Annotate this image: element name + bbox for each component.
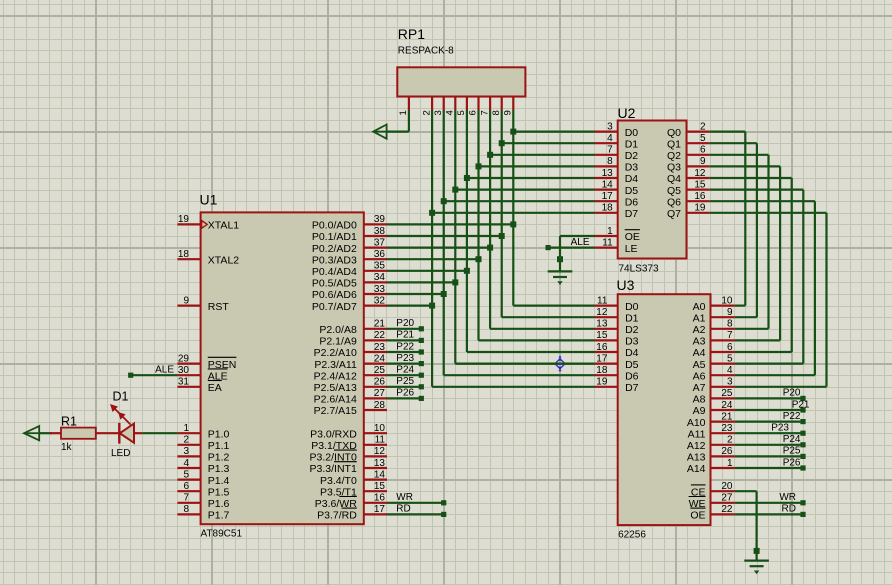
wire AD5 to 74LS373 D5	[455, 189, 594, 191]
wire Q3 to 62256 A3	[710, 166, 780, 340]
svg-text:P3.0/RXD: P3.0/RXD	[310, 428, 357, 440]
RP1 pin 6 stub	[477, 97, 479, 111]
wire P0.0/AD0 from U1 to bus column	[387, 223, 514, 225]
label U2	[618, 105, 636, 121]
svg-text:P2.1/A9: P2.1/A9	[319, 336, 357, 348]
svg-text:1k: 1k	[61, 442, 73, 453]
U2 pin name LE	[625, 243, 638, 255]
U1 pin number 2	[183, 435, 189, 446]
U1 pin 5 (P1.4) stub	[177, 479, 200, 481]
junction AD5 at P0.5 row	[452, 279, 458, 285]
wire D1 to U1 P1.0	[142, 432, 177, 434]
U3 pin 12 (D1) stub	[595, 316, 618, 318]
U2 pin name Q7	[667, 208, 681, 220]
U1 pin 28 (P2.7/A15) stub	[364, 409, 387, 411]
dangling end square (net P20 at U1)	[419, 326, 424, 331]
svg-text:D5: D5	[625, 185, 639, 197]
wire net P23 at U1 P2.3	[387, 363, 422, 365]
RP1 pin number 9 (rotated)	[503, 110, 514, 115]
svg-text:13: 13	[374, 458, 386, 469]
U3 pin 9 (A1) stub	[711, 316, 735, 318]
net label P26 (at U1)	[396, 388, 414, 399]
U2 pin 17 (D6) stub	[595, 200, 618, 202]
svg-text:D5: D5	[625, 359, 639, 371]
svg-text:P0.5/AD5: P0.5/AD5	[312, 278, 357, 290]
svg-text:Q2: Q2	[667, 150, 681, 162]
U3 pin number 25	[721, 388, 733, 399]
U2 pin number 14	[602, 179, 614, 190]
svg-text:8: 8	[183, 504, 189, 515]
U2 pin number 2	[700, 121, 706, 132]
svg-text:A4: A4	[693, 347, 706, 359]
wire P0.4/AD4 from U1 to bus column	[387, 270, 467, 272]
junction AD3 at P0.3 row	[476, 256, 482, 262]
svg-text:RP1: RP1	[398, 26, 425, 42]
wire bus column AD3 (RP1 pin 6 down to 62256 D3 row)	[477, 110, 479, 340]
U1 pin number 39	[374, 214, 386, 225]
svg-text:13: 13	[596, 319, 608, 330]
wire net P26 at U3 A14	[735, 467, 803, 469]
svg-text:A14: A14	[687, 463, 706, 475]
svg-text:3: 3	[607, 121, 613, 132]
svg-text:Q7: Q7	[667, 208, 681, 220]
dangling end square (net P25 at U3)	[800, 454, 805, 459]
svg-text:3: 3	[433, 110, 444, 115]
U3 pin number 19	[596, 377, 608, 388]
svg-text:Q3: Q3	[667, 162, 681, 174]
svg-text:20: 20	[721, 481, 733, 492]
svg-text:D1: D1	[625, 138, 639, 150]
U1 pin name P1.4	[208, 475, 230, 487]
svg-text:P26: P26	[396, 388, 414, 399]
wire net P20 at U3 A8	[735, 397, 803, 399]
wire net P22 at U1 P2.2	[387, 351, 422, 353]
wire bus column AD6 (RP1 pin 3 down to 62256 D6 row)	[443, 110, 445, 375]
U3 pin number 2	[727, 435, 733, 446]
svg-text:P2.5/A13: P2.5/A13	[314, 382, 357, 394]
U3 pin name OE (active low)	[690, 508, 705, 521]
svg-text:6: 6	[468, 110, 479, 115]
U2 pin name D0	[625, 127, 639, 139]
dangling end square (net P24 at U1)	[419, 373, 424, 378]
net label P22 (at U1)	[396, 341, 414, 352]
wire U3 CE to ground	[735, 491, 757, 559]
U2 pin 13 (D4) stub	[595, 177, 618, 179]
U3 pin 13 (D2) stub	[595, 328, 618, 330]
U1 pin 8 (P1.7) stub	[177, 513, 200, 515]
svg-text:2: 2	[727, 435, 733, 446]
svg-text:17: 17	[374, 504, 386, 515]
svg-text:1: 1	[727, 458, 733, 469]
dangling end square (net P26 at U1)	[419, 396, 424, 401]
net label P24 (at U3)	[783, 434, 801, 445]
U1 pin number 8	[183, 504, 189, 515]
wire P0.6/AD6 from U1 to bus column	[387, 293, 444, 295]
svg-text:U3: U3	[617, 277, 635, 293]
U1 pin 1 (P1.0) stub	[177, 432, 200, 434]
svg-text:OE: OE	[690, 510, 705, 522]
svg-text:P3.7/RD: P3.7/RD	[317, 510, 357, 522]
U1 pin 30 (ALE) stub	[177, 374, 200, 376]
svg-text:4: 4	[727, 365, 733, 376]
U1 pin 16 (P3.6/WR) stub	[364, 502, 387, 504]
wire U2 OE to ground	[560, 236, 595, 271]
value AT89C51	[201, 529, 243, 540]
U3 pin 4 (A6) stub	[711, 374, 735, 376]
U1 pin 2 (P1.1) stub	[177, 444, 200, 446]
svg-text:P25: P25	[396, 376, 414, 387]
U1 pin name XTAL2	[208, 254, 239, 266]
U3 pin number 16	[596, 342, 608, 353]
net label P21 (at U1)	[396, 330, 414, 341]
U2 pin name D1	[625, 138, 639, 150]
svg-text:22: 22	[374, 330, 386, 341]
U3 pin 5 (A5) stub	[711, 363, 735, 365]
svg-text:D6: D6	[625, 196, 639, 208]
svg-text:24: 24	[374, 353, 386, 364]
U2 pin 4 (D1) stub	[595, 142, 618, 144]
svg-text:11: 11	[597, 295, 608, 306]
U1 pin name P1.7	[208, 510, 230, 522]
svg-text:26: 26	[721, 446, 733, 457]
svg-text:Q5: Q5	[667, 185, 681, 197]
wire AD5 over origin marker (overlay)	[455, 363, 594, 365]
svg-text:D7: D7	[625, 382, 639, 394]
svg-text:RST: RST	[208, 301, 230, 313]
U1 pin 21 (P2.0/A8) stub	[364, 328, 387, 330]
svg-text:1: 1	[398, 110, 409, 115]
U1 pin 6 (P1.5) stub	[177, 490, 200, 492]
svg-text:LE: LE	[625, 243, 638, 255]
RP1 pin 1 stub	[408, 97, 410, 111]
U2 pin number 11	[602, 237, 613, 248]
U2 pin 5 (Q1) stub	[687, 142, 710, 144]
wire net WR at U3	[735, 502, 803, 504]
U1 pin name EA	[208, 381, 222, 395]
svg-text:P1.7: P1.7	[208, 510, 230, 522]
origin marker (blue)	[553, 356, 567, 372]
RP1 pin number 8 (rotated)	[491, 110, 502, 115]
svg-text:7: 7	[183, 493, 189, 504]
svg-text:P0.0/AD0: P0.0/AD0	[312, 220, 357, 232]
RP1 pin 8 stub	[501, 97, 503, 111]
svg-text:9: 9	[700, 156, 706, 167]
net label P26 (at U3)	[783, 457, 801, 468]
U2 pin number 3	[607, 121, 613, 132]
svg-text:18: 18	[596, 365, 608, 376]
svg-text:D3: D3	[625, 162, 639, 174]
U3 pin name D0	[625, 301, 639, 313]
svg-text:P1.3: P1.3	[208, 463, 230, 475]
net label P23 (at U1)	[396, 353, 414, 364]
svg-text:5: 5	[456, 110, 467, 115]
U1 pin number 11	[375, 435, 386, 446]
ground symbol (under U3)	[744, 561, 769, 575]
wire net ALE to U2 LE	[548, 247, 594, 249]
svg-text:19: 19	[694, 203, 706, 214]
U3 pin number 22	[721, 504, 733, 515]
svg-text:XTAL1: XTAL1	[208, 220, 239, 232]
U1 pin name PSEN	[208, 357, 237, 371]
U1 pin name P3.1/TXD	[311, 440, 357, 452]
junction AD4 at 74LS373 D4 row	[464, 175, 470, 181]
U2 pin 6 (Q2) stub	[687, 154, 710, 156]
svg-text:5: 5	[727, 353, 733, 364]
wire bus column AD2 (RP1 pin 7 down to 62256 D2 row)	[489, 110, 491, 329]
wire Q0 to 62256 A0	[710, 132, 746, 306]
U3 pin 16 (D4) stub	[595, 351, 618, 353]
RP1 pin 3 stub	[443, 97, 445, 111]
U1 pin 23 (P2.2/A10) stub	[364, 351, 387, 353]
svg-text:P1.4: P1.4	[208, 475, 230, 487]
svg-text:31: 31	[178, 377, 190, 388]
wire RP1 pin1 to left terminal (net AD0 pull-up common)	[387, 110, 409, 132]
svg-text:32: 32	[374, 295, 386, 306]
RP1 pin number 6 (rotated)	[468, 110, 479, 115]
dangling end square (net RD at U3)	[800, 512, 805, 517]
junction AD0 at P0.0 row	[510, 221, 516, 227]
svg-text:P21: P21	[792, 399, 810, 410]
wire AD4 to 74LS373 D4	[467, 177, 595, 179]
U2 pin 7 (D2) stub	[595, 154, 618, 156]
svg-text:P1.0: P1.0	[208, 428, 230, 440]
U1 pin 18 (XTAL2) stub	[177, 258, 200, 260]
U3 pin 1 (A14) stub	[711, 467, 735, 469]
U2 pin number 1	[607, 226, 613, 237]
net label RD (at U3)	[782, 504, 796, 515]
U3 pin name A3	[693, 336, 706, 348]
U1 pin number 13	[374, 458, 386, 469]
U2 pin number 18	[602, 203, 614, 214]
U1 pin number 6	[183, 481, 189, 492]
U1 pin name P2.2/A10	[314, 347, 357, 359]
U2 pin 2 (Q0) stub	[687, 131, 710, 133]
U1 pin 9 (RST) stub	[177, 305, 200, 307]
U1 pin name P0.1/AD1	[312, 231, 357, 243]
U2 pin 9 (Q3) stub	[687, 165, 710, 167]
junction AD4 at P0.4 row	[464, 268, 470, 274]
U3 pin number 6	[727, 342, 733, 353]
U2 pin 19 (Q7) stub	[687, 212, 710, 214]
svg-text:19: 19	[178, 214, 190, 225]
svg-text:D7: D7	[625, 208, 639, 220]
junction AD5 at 74LS373 D5 row	[452, 187, 458, 193]
U1 pin number 30	[178, 365, 190, 376]
U1 pin number 24	[374, 353, 386, 364]
U3 pin number 11	[597, 295, 608, 306]
U1 pin 31 (EA) stub	[177, 386, 200, 388]
svg-text:8: 8	[491, 110, 502, 115]
U1 pin number 29	[178, 353, 190, 364]
U3 pin name A0	[693, 301, 706, 313]
resistor pack RP1 body	[397, 67, 525, 96]
net label WR (at U1)	[396, 492, 413, 503]
U1 pin 34 (P0.5/AD5) stub	[364, 281, 387, 283]
svg-text:36: 36	[374, 249, 386, 260]
svg-text:P0.3/AD3: P0.3/AD3	[312, 254, 357, 266]
svg-text:D3: D3	[625, 336, 639, 348]
wire net P22 at U3 A10	[735, 421, 803, 423]
U3 pin number 7	[727, 330, 733, 341]
dangling end square (net P20 at U3)	[800, 396, 805, 401]
U1 pin name P1.1	[208, 440, 230, 452]
junction on U2 OE ground drop	[557, 256, 563, 262]
value 1k	[61, 442, 73, 453]
svg-text:6: 6	[700, 145, 706, 156]
svg-text:P0.2/AD2: P0.2/AD2	[312, 243, 357, 255]
U1 pin name RST	[208, 301, 230, 313]
U1 pin number 26	[374, 377, 386, 388]
U2 pin name Q4	[667, 173, 681, 185]
svg-text:A1: A1	[693, 312, 706, 324]
U1 pin name P0.4/AD4	[312, 266, 357, 278]
U2 pin name Q5	[667, 185, 681, 197]
net label WR (at U3)	[779, 492, 796, 503]
U3 pin name D4	[625, 347, 639, 359]
svg-text:35: 35	[374, 261, 386, 272]
U1 pin number 31	[178, 377, 190, 388]
svg-text:P2.0/A8: P2.0/A8	[319, 324, 357, 336]
svg-text:38: 38	[374, 226, 386, 237]
U1 pin 32 (P0.7/AD7) stub	[364, 305, 387, 307]
junction AD3 at 74LS373 D3 row	[476, 163, 482, 169]
U1 pin 3 (P1.2) stub	[177, 455, 200, 457]
label D1	[113, 390, 129, 404]
svg-text:A0: A0	[693, 301, 706, 313]
U3 pin 26 (A13) stub	[711, 455, 735, 457]
U3 pin number 9	[727, 307, 733, 318]
svg-text:39: 39	[374, 214, 386, 225]
U1 pin name P3.4/T0	[320, 475, 357, 487]
U3 pin number 12	[596, 307, 608, 318]
svg-text:P2.2/A10: P2.2/A10	[314, 347, 357, 359]
svg-text:4: 4	[183, 458, 189, 469]
U2 pin number 15	[694, 179, 706, 190]
U1 pin 13 (P3.3/INT1) stub	[364, 467, 387, 469]
svg-text:A10: A10	[687, 417, 706, 429]
U2 pin name D4	[625, 173, 639, 185]
dangling end square (net P23 at U1)	[419, 361, 424, 366]
svg-text:P20: P20	[396, 318, 414, 329]
U3 pin name D7	[625, 382, 639, 394]
svg-text:D6: D6	[625, 370, 639, 382]
U3 pin name D3	[625, 336, 639, 348]
svg-text:19: 19	[596, 377, 608, 388]
svg-text:Q4: Q4	[667, 173, 681, 185]
U1 pin name P2.4/A12	[314, 370, 357, 382]
U1 pin number 15	[374, 481, 386, 492]
U1 pin name P3.7/RD	[317, 508, 357, 521]
svg-text:15: 15	[596, 330, 608, 341]
junction on U3 CE ground drop	[754, 548, 760, 554]
svg-text:8: 8	[607, 156, 613, 167]
svg-text:12: 12	[596, 307, 608, 318]
wire Q5 to 62256 A5	[710, 190, 804, 364]
svg-text:A12: A12	[687, 440, 706, 452]
U3 pin name A1	[693, 312, 706, 324]
svg-text:A8: A8	[693, 394, 706, 406]
svg-text:8: 8	[727, 319, 733, 330]
svg-text:P22: P22	[396, 341, 414, 352]
wire net P24 at U3 A12	[735, 444, 803, 446]
U1 pin name P1.2	[208, 452, 230, 464]
U1 pin number 17	[374, 504, 386, 515]
U1 pin number 21	[374, 319, 386, 330]
dangling end square (net P21 at U3)	[800, 407, 805, 412]
svg-text:A9: A9	[693, 405, 706, 417]
svg-text:2: 2	[183, 435, 189, 446]
U1 pin number 9	[183, 295, 189, 306]
dangling end square (net RD at U1)	[441, 512, 446, 517]
U1 pin 33 (P0.6/AD6) stub	[364, 293, 387, 295]
net label P20 (at U3)	[783, 388, 801, 399]
net label P24 (at U1)	[396, 365, 414, 376]
svg-text:4: 4	[445, 110, 456, 115]
U2 pin 15 (Q5) stub	[687, 189, 710, 191]
svg-text:15: 15	[374, 481, 386, 492]
svg-text:P0.7/AD7: P0.7/AD7	[312, 301, 357, 313]
U3 pin number 20	[721, 481, 733, 492]
wire P0.2/AD2 from U1 to bus column	[387, 247, 490, 249]
U3 pin number 15	[596, 330, 608, 341]
ground symbol (under U2)	[548, 271, 573, 285]
RP1 pin number 4 (rotated)	[445, 110, 456, 115]
dangling end square (net P21 at U1)	[419, 338, 424, 343]
wire AD0 to 62256 D0	[513, 305, 594, 307]
U1 pin name ALE	[208, 369, 228, 383]
U3 pin number 23	[721, 423, 733, 434]
svg-text:D1: D1	[113, 390, 129, 404]
U3 pin number 13	[596, 319, 608, 330]
U2 pin 8 (D3) stub	[595, 165, 618, 167]
latch U2 74LS373 body	[618, 121, 687, 259]
U1 pin 35 (P0.4/AD4) stub	[364, 270, 387, 272]
U1 pin name P0.7/AD7	[312, 301, 357, 313]
U3 pin name D5	[625, 359, 639, 371]
net label P22 (at U3)	[783, 411, 801, 422]
svg-text:WR: WR	[779, 492, 796, 503]
svg-text:6: 6	[727, 342, 733, 353]
U3 pin name A4	[693, 347, 706, 359]
U1 pin number 36	[374, 249, 386, 260]
U1 pin 27 (P2.6/A14) stub	[364, 397, 387, 399]
U1 pin name P1.6	[208, 498, 230, 510]
junction AD1 at P0.1 row	[499, 233, 505, 239]
U1 pin name P1.3	[208, 463, 230, 475]
wire net P20 at U1 P2.0	[387, 328, 422, 330]
U2 pin name D6	[625, 196, 639, 208]
svg-text:1: 1	[607, 226, 613, 237]
U1 pin 10 (P3.0/RXD) stub	[364, 432, 387, 434]
U1 pin number 37	[374, 237, 386, 248]
svg-text:9: 9	[727, 307, 733, 318]
U3 pin 18 (D6) stub	[595, 374, 618, 376]
svg-text:7: 7	[479, 110, 490, 115]
U2 pin 12 (Q4) stub	[687, 177, 710, 179]
U2 pin name OE (active low)	[625, 230, 640, 244]
svg-text:P21: P21	[396, 330, 414, 341]
svg-text:30: 30	[178, 365, 190, 376]
svg-text:A5: A5	[693, 359, 706, 371]
svg-text:7: 7	[607, 145, 613, 156]
svg-text:ALE: ALE	[155, 365, 174, 376]
junction AD7 at P0.7 row	[429, 303, 435, 309]
svg-text:17: 17	[596, 353, 608, 364]
U3 pin 19 (D7) stub	[595, 386, 618, 388]
U2 pin 11 (LE) stub	[595, 247, 618, 249]
svg-text:A7: A7	[693, 382, 706, 394]
wire P0.7/AD7 from U1 to bus column	[387, 305, 432, 307]
